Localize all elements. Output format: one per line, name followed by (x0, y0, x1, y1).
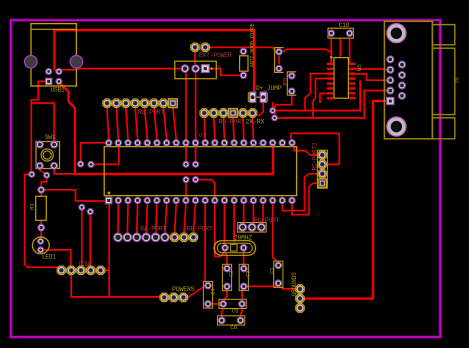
via (88, 161, 94, 167)
svg-text:U1: U1 (199, 132, 206, 139)
header RA-PORT / RE-PORT (114, 226, 213, 242)
wire (195, 73, 197, 164)
svg-text:RC-PORT: RC-PORT (254, 217, 280, 224)
wire (242, 47, 244, 51)
wire (41, 175, 47, 190)
wire (194, 51, 196, 64)
via (29, 171, 35, 177)
ic socket U1 (104, 132, 296, 204)
connector J5 DB9 (384, 21, 460, 139)
wire (25, 174, 62, 270)
svg-text:ANTI-NOOB_DIODE: ANTI-NOOB_DIODE (250, 23, 256, 67)
wire (215, 204, 225, 257)
wire (54, 30, 254, 97)
header EXT-POWER (191, 43, 232, 59)
svg-text:EXT-POWER: EXT-POWER (199, 52, 232, 59)
wire (223, 204, 225, 244)
wire (243, 204, 244, 225)
wire (31, 81, 48, 174)
wire (225, 252, 227, 265)
wire (320, 93, 327, 103)
wire (40, 166, 47, 175)
wire (241, 287, 243, 300)
svg-text:20MHZ: 20MHZ (234, 234, 252, 241)
wire (108, 203, 110, 297)
wire (71, 270, 164, 297)
header RC-PORT (238, 217, 280, 232)
via (79, 204, 85, 210)
svg-text:LED1: LED1 (42, 254, 56, 261)
ic U5 (327, 56, 363, 100)
switch SW1 (36, 134, 60, 169)
wire (261, 204, 263, 223)
wire (196, 180, 215, 197)
resistor R1 (29, 187, 47, 231)
svg-text:D+_JUMP: D+_JUMP (256, 85, 282, 92)
svg-text:SW1: SW1 (45, 134, 56, 141)
wire (81, 207, 83, 267)
wire (356, 74, 387, 80)
wire (292, 183, 318, 214)
wire (41, 190, 104, 201)
capacitor C6 (218, 316, 245, 331)
crystal Q1 20MHZ (214, 234, 256, 255)
jumper JP7 (275, 48, 284, 73)
wire (349, 38, 351, 64)
capacitor C1 (269, 261, 283, 287)
via (272, 115, 278, 121)
solder jumper D+_JUMP (248, 85, 282, 102)
capacitor C10 (328, 22, 353, 38)
via (270, 108, 276, 114)
capacitor C5 (219, 299, 246, 314)
wire RD-PORT to U1 (204, 118, 205, 140)
wire (283, 49, 331, 52)
wire (205, 204, 208, 286)
wire (339, 38, 341, 57)
wire (356, 68, 387, 71)
wire (242, 71, 244, 75)
svg-text:RC-PORT1: RC-PORT1 (311, 142, 318, 171)
header POWERS (160, 286, 195, 301)
wire (210, 69, 240, 76)
wire (305, 93, 311, 111)
svg-text:RB-PORT: RB-PORT (138, 109, 165, 116)
svg-text:C10: C10 (339, 22, 350, 29)
wire (273, 204, 279, 265)
diode D1 ANTI-NOOB_DIODE (240, 23, 256, 78)
wire (259, 102, 264, 117)
wire (41, 250, 71, 270)
svg-text:C2: C2 (228, 270, 235, 277)
led LED1 (32, 237, 56, 261)
wire (275, 91, 387, 118)
svg-text:RE-PORT: RE-PORT (187, 226, 213, 233)
svg-text:USB1: USB1 (51, 87, 66, 94)
wire (188, 286, 208, 298)
svg-text:POWERS: POWERS (172, 286, 195, 293)
svg-text:2X-RX: 2X-RX (246, 119, 265, 126)
wire (91, 147, 119, 165)
wire (210, 47, 279, 52)
wire (208, 303, 223, 305)
svg-text:R1: R1 (29, 203, 36, 210)
header GROUNDS (291, 272, 304, 312)
via D+ pair (183, 161, 189, 167)
wire (278, 284, 295, 289)
wire RB-PORT to U1 (107, 108, 109, 140)
wire (54, 69, 181, 70)
via (78, 161, 84, 167)
svg-text:C6: C6 (230, 324, 237, 331)
wire (316, 79, 328, 99)
capacitor C2 (222, 264, 234, 290)
wire (244, 285, 278, 287)
svg-text:RA-PORT: RA-PORT (140, 226, 166, 233)
header RD-PORT / UART2X-RX (200, 109, 265, 126)
wire (104, 269, 109, 271)
wire (54, 166, 75, 174)
wire (31, 103, 54, 145)
wire (282, 174, 317, 211)
via (44, 172, 50, 178)
svg-text:C3: C3 (244, 270, 251, 277)
svg-text:C4: C4 (210, 288, 217, 295)
header RB-PORT (103, 99, 178, 116)
svg-text:JP8: JP8 (283, 78, 289, 87)
header ICSP (57, 261, 105, 275)
svg-text:C5: C5 (232, 307, 239, 314)
wire (294, 147, 317, 156)
wire (185, 73, 187, 164)
wire (313, 98, 316, 118)
wire (81, 143, 105, 164)
wire (272, 102, 274, 108)
wire (330, 38, 332, 64)
via (87, 209, 93, 215)
svg-text:U5: U5 (356, 64, 363, 71)
wire (222, 308, 224, 316)
wire (59, 82, 273, 174)
wire (252, 204, 253, 225)
svg-text:C1: C1 (269, 267, 276, 274)
svg-text:2: 2 (215, 65, 222, 68)
wire (278, 56, 280, 64)
wire (185, 180, 187, 197)
connector USB1 (25, 24, 83, 94)
wire (233, 204, 235, 242)
header RC-PORT1 (311, 142, 327, 188)
wire (40, 190, 42, 241)
svg-text:RD-PORT: RD-PORT (219, 119, 246, 126)
wire (291, 133, 339, 164)
capacitor C4 (203, 281, 216, 308)
jumper JP8 (283, 72, 297, 95)
svg-text:J5: J5 (454, 77, 461, 84)
wire (223, 291, 227, 304)
wire U1 to RA/RE-PORT (117, 204, 119, 233)
wire (89, 212, 91, 267)
wire (275, 95, 292, 115)
wire (243, 252, 245, 265)
wire (311, 74, 328, 93)
jumper block power select (175, 61, 222, 78)
capacitor C3 (239, 264, 251, 290)
wire (305, 101, 391, 299)
wire (241, 308, 243, 316)
via pair 2 (183, 177, 189, 183)
wire (273, 80, 361, 110)
